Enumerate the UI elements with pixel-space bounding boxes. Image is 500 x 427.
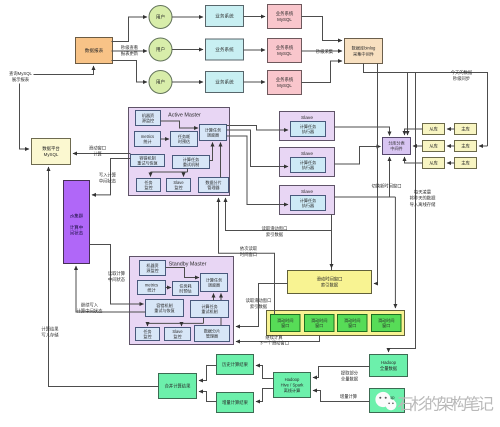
svg-text:计算任务: 计算任务 [183,156,199,162]
wire Hadoop全量→Hive [313,367,370,378]
svg-text:滑动时间: 滑动时间 [378,317,394,323]
svg-text:从库: 从库 [429,126,438,133]
wire AM metrics→任务耗时预估 [161,138,170,140]
box 业务系统MySQL 1 [268,5,302,29]
box AM 任务耗时预估 [171,132,198,147]
box 业务系统MySQL 3 [268,71,302,95]
svg-text:统计: 统计 [147,287,155,293]
wire AM 机器资源监控→调度器 [161,121,199,128]
svg-text:中间状态: 中间状态 [99,177,117,184]
box 业务系统 1 [206,6,244,27]
svg-text:写入存储: 写入存储 [41,331,59,338]
svg-text:石杉的架构笔记: 石杉的架构笔记 [398,396,494,414]
box 滑动时间窗口 1 [271,315,301,332]
svg-text:业务系统: 业务系统 [215,13,234,20]
svg-text:窗口: 窗口 [382,322,390,328]
wire Standby→zk底部 [76,266,146,312]
svg-text:窗口: 窗口 [281,322,289,328]
svg-text:增量计算结果: 增量计算结果 [222,399,248,406]
svg-text:下一个滑动窗口: 下一个滑动窗口 [259,339,289,346]
box 主库 3 [455,158,477,169]
box SM Slave监控 [165,328,191,341]
svg-text:执行器: 执行器 [302,202,314,208]
label 切换新时间窗口 [371,183,401,190]
wire 主库2→从库2 [447,145,455,147]
wire 查询MySQL下行→数据平台 [20,84,30,150]
svg-text:计算: 计算 [93,150,102,157]
wire 数据报表→用户1 [112,17,148,42]
svg-text:执行器: 执行器 [302,164,314,170]
wire 主库1→从库1 [447,128,455,130]
circle 用户 1 [149,6,172,29]
wire binlog干线→分库分表中间件B [407,73,409,136]
wire binlog→右侧干线 [364,64,488,147]
svg-text:计算中间状态: 计算中间状态 [77,307,103,314]
wire Slave3→切换窗口横线 [335,196,396,198]
box 滑动时间窗口索引数据 [288,271,372,294]
svg-text:任务: 任务 [144,179,152,185]
wire Hive→增量计算结果 [256,389,274,402]
svg-text:中间件: 中间件 [390,145,402,151]
box AM 机器资源监控 [136,111,161,126]
wire 数据报表→用户3 [112,61,148,83]
box SM 机器资源监控 [140,261,166,276]
wire 合并结果→数据平台MySQL [49,167,159,387]
svg-text:分库分表: 分库分表 [388,140,404,146]
svg-text:报表更新: 报表更新 [121,50,139,57]
wire 切换线→中间件底 [389,157,391,197]
label 滑动窗口计算 [89,145,106,158]
svg-text:合并计算结果: 合并计算结果 [165,383,191,390]
svg-text:任务: 任务 [143,328,151,334]
wire MySQL3→binlog [302,61,343,83]
circle 用户 2 [149,38,172,61]
wire 调度器→Slave2执行器 [227,130,289,167]
svg-text:离线计算: 离线计算 [284,387,301,394]
box Slave 2 [280,148,335,177]
box 业务系统MySQL 2 [268,39,302,63]
wire 用户2→业务系统2 [172,49,203,51]
box 数据平台MySQL [32,139,71,165]
svg-text:数据分片: 数据分片 [204,327,220,333]
box AM 数据分片管理器 [199,178,229,193]
box AM 计算任务重试机制 [173,156,210,169]
box SM 任务监控 [136,328,160,341]
svg-text:MySQL: MySQL [277,83,292,88]
box 从库 1 [423,124,445,135]
wire SM 重试机制→监控T线 [148,318,204,324]
wire 查询报表→数据报表 [34,66,94,75]
wire 容器→SM下一个窗口 [236,336,320,342]
svg-text:管理器: 管理器 [207,184,219,190]
svg-text:重试机制: 重试机制 [183,161,199,167]
box AM 容错机制重试与恢复 [131,154,165,166]
wire SM 分片管理器→调度器上段 [220,294,222,301]
wire AM 分片管理器→调度器 [220,143,222,178]
svg-text:索引数据: 索引数据 [250,303,268,310]
wire AM→数据平台MySQL [73,153,131,155]
svg-text:重试与恢复: 重试与恢复 [154,307,174,313]
label Standby Master title [169,262,207,268]
box 增量计算结果 [217,393,254,413]
svg-text:将昨天的数据: 将昨天的数据 [410,195,436,202]
svg-text:MySQL: MySQL [44,152,59,157]
wire SM →Slave监控 [181,323,183,326]
svg-text:展示报表: 展示报表 [12,76,30,83]
svg-text:重试机制: 重试机制 [201,308,217,314]
label 增量计算 [340,393,358,400]
box 从库 2 [423,141,445,152]
box AM 计算任务调度器 [200,125,227,141]
svg-text:主库: 主库 [461,126,470,133]
box 从库 3 [423,158,445,169]
svg-text:数据报表: 数据报表 [85,47,104,54]
label 继续写入计算中间状态 [77,302,103,315]
label Slave 2 title [301,151,313,157]
svg-text:计算任务: 计算任务 [300,159,316,165]
svg-text:中间状态: 中间状态 [108,276,126,283]
svg-text:用户: 用户 [156,79,165,86]
wire 从库1→中间件顶 [405,129,423,135]
wire AM 重试机制→调度器 [210,143,213,161]
circle 用户 3 [149,71,172,94]
svg-text:调度器: 调度器 [207,132,219,138]
box 计算任务执行器 3 [291,196,326,211]
wire 业务系统1→MySQL1 [244,16,266,18]
svg-text:机器资: 机器资 [142,112,154,118]
label 秒级采集 [316,48,334,55]
box Hadoop Hive Spark离线计算 [274,373,311,398]
svg-text:计算任务: 计算任务 [205,126,221,132]
box 业务系统 2 [206,39,244,60]
box 计算任务执行器 2 [291,158,326,173]
box 业务系统 3 [206,72,244,93]
box SM 容错机制重试与恢复 [146,300,184,317]
svg-text:Slave: Slave [301,151,313,157]
box AM metrics统计 [135,132,161,147]
svg-text:容错机制: 容错机制 [156,302,172,308]
box 合并计算结果 [159,374,197,399]
wire Hadoop增量→Hive [313,391,370,402]
box 分库分表中间件 [383,138,411,155]
wire SM 分片管理器→调度器下段 [220,318,222,326]
box Hadoop全量数据 [370,355,408,377]
svg-text:监控: 监控 [144,184,152,190]
box 滑动窗口容器 [267,311,405,336]
box SM 计算任务调度器 [201,274,228,292]
svg-text:管理器: 管理器 [206,333,218,339]
wire SM 重试机制→调度器 [213,294,215,301]
box 滑动时间窗口 2 [305,315,335,332]
svg-text:秒级同步: 秒级同步 [453,75,471,82]
wire AM →Slave监控 [184,172,188,177]
box SM 任务耗时预估 [173,282,199,296]
svg-text:计算任务: 计算任务 [201,303,217,309]
svg-text:导入离线存储: 导入离线存储 [410,201,436,208]
svg-text:数据分片: 数据分片 [205,179,221,185]
wire AM 重试机制→监控T线 [151,169,188,173]
wire 索引数据→SM分片管理器 [236,284,288,327]
svg-text:切换新时间窗口: 切换新时间窗口 [371,183,401,190]
svg-text:索引数据: 索引数据 [321,281,339,288]
label 继续计算下一个滑动窗口 [259,334,289,346]
wire 业务系统2→MySQL2 [244,49,266,51]
label Active Master title [168,113,201,119]
wire 增量结果→合并 [199,392,217,402]
label 读取计算中间状态 [108,270,126,283]
box 滑动时间窗口 4 [372,315,402,332]
svg-text:用户: 用户 [156,14,165,21]
svg-text:时预估: 时预估 [178,138,190,144]
label 每天凌晨导入离线存储 [410,189,436,208]
svg-text:机器资: 机器资 [146,262,158,268]
svg-text:Active Master: Active Master [168,113,201,119]
wire MySQL1→binlog [302,17,343,41]
svg-text:计算任务: 计算任务 [300,197,316,203]
label 计算结果写入存储 [41,326,59,339]
svg-text:Standby Master: Standby Master [169,262,207,268]
watermark 微信logo [375,392,396,410]
svg-text:窗口: 窗口 [315,322,323,328]
svg-text:Hadoop: Hadoop [285,377,300,382]
wire Slave2→中间件左 [335,147,381,165]
wire binlog支线→索引数据右 [374,64,378,284]
svg-text:滑动时间: 滑动时间 [311,317,327,323]
label 读取滑动窗口索引数据1 [262,225,288,238]
label 秒级查看报表更新 [121,44,139,57]
label 提取部分全量数据 [341,370,359,383]
box 主库 2 [455,141,477,152]
wire SM 机器资源监控→调度器 [166,268,200,278]
svg-text:采集中间件: 采集中间件 [353,50,374,57]
svg-text:每天凌晨: 每天凌晨 [414,189,432,196]
box AM Slave监控 [167,179,191,192]
svg-text:窗口: 窗口 [348,322,356,328]
box Standby Master [130,257,234,345]
svg-text:业务系统: 业务系统 [215,79,234,86]
svg-text:源监控: 源监控 [142,117,154,123]
svg-text:全量数据: 全量数据 [341,375,359,382]
svg-text:监控: 监控 [174,184,182,190]
label 今天的数据秒级同步 [451,69,473,82]
svg-text:主库: 主库 [461,160,470,167]
svg-text:滑动时间: 滑动时间 [277,317,293,323]
svg-text:全量数据: 全量数据 [380,365,398,372]
wire 干线→Hadoop全量数据 [389,73,416,353]
label Slave 1 title [301,115,313,121]
svg-text:历史计算结果: 历史计算结果 [222,361,248,368]
wire 主库3→从库3 [447,162,455,164]
label 查询MySQL展示报表 [9,70,33,83]
svg-text:间状态: 间状态 [70,229,84,236]
box Hadoop增量数据 [370,389,405,413]
svg-text:MySQL: MySQL [277,17,292,22]
box 滑动时间窗口 3 [338,315,368,332]
svg-text:Slave: Slave [301,189,313,195]
svg-text:统计: 统计 [143,138,151,144]
svg-text:计算任务: 计算任务 [206,276,222,282]
box 主库 1 [455,124,477,135]
wire Hive→历史计算结果 [256,366,274,379]
wire AM →任务监控 [150,172,152,177]
box 计算任务执行器 1 [291,122,326,137]
wire zk→Standby读取 [90,245,144,305]
svg-text:重试与恢复: 重试与恢复 [137,160,157,166]
wire 业务系统3→MySQL3 [244,81,266,83]
svg-text:从库: 从库 [429,160,438,167]
svg-text:容错机制: 容错机制 [139,154,155,160]
svg-text:调度器: 调度器 [208,282,220,288]
svg-text:主库: 主库 [461,143,470,150]
wire Slave3底→索引数据顶 [331,215,333,269]
wire 调度器→Slave3执行器 [227,136,289,205]
svg-text:秒级采集: 秒级采集 [316,48,334,55]
wire 数据报表→用户2 [112,50,148,52]
wire MySQL2→binlog [302,50,343,52]
box 数据报表 [76,38,113,64]
wire 从库3→中间件底 [405,157,423,163]
wire 窗口1→AM分片管理器 [219,198,275,315]
svg-text:源监控: 源监控 [146,267,158,273]
svg-text:计算任务: 计算任务 [300,123,316,129]
box 数据库binlog采集中间件 [345,39,383,64]
box 历史计算结果 [217,355,254,375]
svg-text:执行器: 执行器 [302,128,314,134]
svg-text:监控: 监控 [143,333,151,339]
box Slave 3 [280,186,335,215]
svg-text:用户: 用户 [156,46,165,53]
wire AM→zk写入 [92,159,131,195]
box zk集群 计算中间状态 [64,181,90,264]
wire 调度器→Slave1执行器 [227,126,289,131]
box SM 计算任务重试机制 [191,301,229,318]
wire 索引数据→AM分片管理器 [226,198,332,271]
svg-text:Hive / Spark: Hive / Spark [281,383,305,388]
box Active Master [129,108,230,196]
wire 用户3→业务系统3 [172,81,203,83]
wire Slave1→中间件顶 [335,127,390,136]
svg-text:滑动时间: 滑动时间 [344,317,360,323]
label Slave 3 title [301,189,313,195]
box SM metrics统计 [138,281,166,295]
box Slave 1 [280,112,335,141]
svg-text:任务耗: 任务耗 [179,282,191,288]
wire 用户1→业务系统1 [172,16,203,18]
label 依次读取时间窗口 [240,245,258,258]
svg-text:Hadoop: Hadoop [381,360,397,365]
wire AM →Slave监控箭头 [183,172,185,176]
svg-text:MySQL: MySQL [277,51,292,56]
label 读取滑动窗口索引数据2 [246,297,272,310]
svg-text:zk集群: zk集群 [70,213,84,220]
svg-text:业务系统: 业务系统 [215,46,234,53]
wire 切换线→容器顶 [394,197,396,308]
box SM 数据分片管理器 [195,326,230,342]
wire →主库2 [479,145,488,147]
box AM 任务监控 [137,179,161,192]
svg-text:Slave: Slave [301,115,313,121]
wire 从库2→中间件右 [413,145,423,147]
svg-text:从库: 从库 [429,143,438,150]
wire SM metrics→任务耗时预估 [166,287,172,289]
svg-text:增量计算: 增量计算 [340,393,358,400]
wire SM →任务监控 [147,323,149,326]
label 写入计算中间状态 [99,172,117,185]
svg-text:监控: 监控 [173,333,181,339]
wire 历史结果→合并 [199,366,217,381]
svg-text:索引数据: 索引数据 [266,231,284,238]
svg-text:任务耗: 任务耗 [178,133,190,139]
svg-text:时预估: 时预估 [179,288,191,294]
svg-text:时间窗口: 时间窗口 [240,251,257,258]
